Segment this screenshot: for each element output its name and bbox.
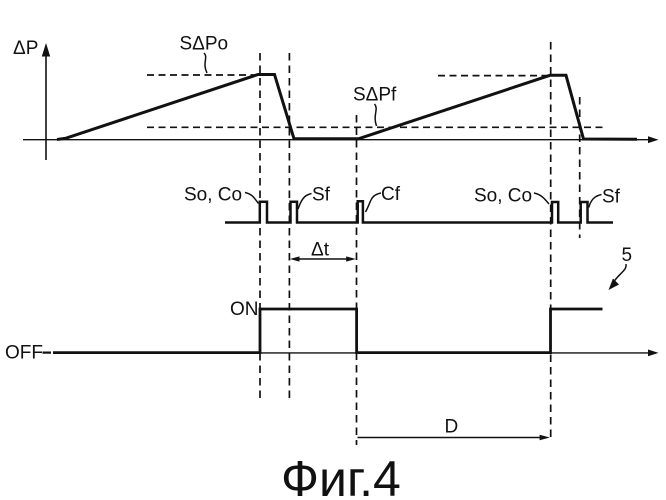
- svg-text:Фиг.4: Фиг.4: [281, 451, 401, 500]
- svg-text:Cf: Cf: [381, 184, 401, 205]
- svg-text:OFF: OFF: [5, 343, 43, 364]
- svg-text:ON: ON: [230, 299, 259, 320]
- svg-text:5: 5: [622, 245, 633, 266]
- svg-text:So, Co: So, Co: [474, 186, 532, 207]
- svg-text:Sf: Sf: [602, 187, 621, 208]
- svg-text:Sf: Sf: [312, 185, 331, 206]
- svg-text:ΔP: ΔP: [13, 38, 38, 59]
- svg-text:SΔPf: SΔPf: [353, 85, 397, 106]
- svg-text:SΔPo: SΔPo: [180, 34, 229, 55]
- svg-text:So, Co: So, Co: [184, 185, 242, 206]
- svg-text:Δt: Δt: [311, 240, 330, 261]
- svg-text:D: D: [445, 417, 459, 438]
